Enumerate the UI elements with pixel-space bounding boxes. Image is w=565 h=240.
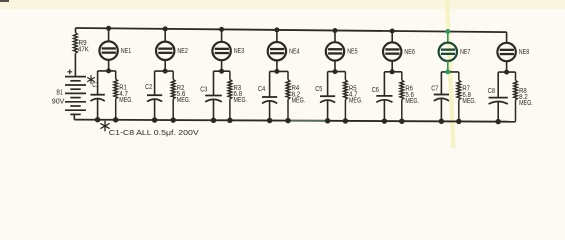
- wire NE3 to node: [221, 60, 223, 71]
- junction bottom bus C8: [495, 119, 501, 125]
- junction node branch 2: [163, 69, 168, 74]
- svg-text:C3: C3: [200, 87, 207, 94]
- junction bottom bus R7: [456, 119, 462, 125]
- junction bottom bus C7: [439, 119, 445, 125]
- capacitor C3: [205, 95, 222, 97]
- capacitor C5: [320, 95, 335, 97]
- junction bottom bus C6: [382, 118, 388, 124]
- junction top bus branch 3: [219, 27, 224, 32]
- junction top bus branch 7: [445, 29, 450, 34]
- wire node branch 1: [98, 70, 116, 72]
- svg-text:C1-C8 ALL 0.5μf. 200V: C1-C8 ALL 0.5μf. 200V: [109, 128, 199, 137]
- wire R3 to bottom bus: [229, 99, 231, 120]
- svg-text:NE8: NE8: [519, 47, 529, 56]
- wire bottom bus: [74, 120, 515, 122]
- svg-text:MEG.: MEG.: [462, 98, 476, 105]
- wire bus to NE6: [391, 31, 393, 43]
- wire node branch 6: [384, 71, 401, 73]
- svg-text:B1: B1: [56, 90, 63, 97]
- junction bottom bus R3: [227, 118, 233, 124]
- wire R6 to bottom bus: [401, 100, 403, 122]
- wire node to C4: [269, 71, 271, 97]
- resistor R8: [514, 80, 518, 100]
- svg-text:MEG.: MEG.: [119, 97, 133, 104]
- junction top bus branch 4: [274, 27, 279, 32]
- resistor R6: [400, 80, 404, 100]
- neon lamp NE7: [439, 43, 457, 61]
- svg-text:C5: C5: [315, 86, 322, 93]
- junction bottom bus R2: [170, 117, 176, 123]
- svg-text:C7: C7: [431, 86, 438, 93]
- wire C8 to bottom bus: [497, 102, 499, 122]
- wire node branch 7: [441, 71, 458, 73]
- junction bottom bus C3: [211, 118, 217, 124]
- neon lamp NE5: [326, 42, 344, 60]
- svg-text:MEG.: MEG.: [405, 98, 419, 105]
- wire node to C1: [97, 71, 99, 95]
- corner smudge: [0, 0, 9, 2]
- svg-text:MEG.: MEG.: [349, 98, 363, 105]
- yellow marker line: [447, 0, 454, 148]
- wire C1 to bottom bus: [97, 99, 99, 120]
- resistor R5: [344, 80, 348, 100]
- battery B1 plus sign: [67, 69, 72, 74]
- svg-text:C8: C8: [488, 88, 495, 95]
- resistor R3: [228, 80, 232, 100]
- capacitor C4: [262, 96, 277, 98]
- wire C6 to bottom bus: [383, 100, 385, 121]
- junction top bus branch 6: [390, 29, 395, 34]
- wire R5 to bottom bus: [344, 100, 346, 121]
- junction node branch 1: [106, 68, 111, 73]
- junction node branch 5: [333, 69, 338, 74]
- wire node branch 5: [328, 71, 346, 73]
- wire node branch 3: [214, 70, 230, 72]
- wire node to R4: [287, 71, 289, 79]
- wire node to C7: [440, 72, 442, 95]
- neon lamp NE6: [383, 42, 401, 60]
- wire R2 to bottom bus: [172, 99, 174, 120]
- wire node to C8: [497, 72, 499, 98]
- junction node branch 7: [445, 69, 450, 74]
- junction bottom bus C5: [325, 118, 331, 124]
- wire C2 to bottom bus: [154, 100, 156, 120]
- wire NE2 to node: [164, 60, 166, 71]
- capacitor C6: [376, 95, 392, 97]
- wire node to C3: [213, 71, 215, 95]
- svg-text:MEG.: MEG.: [234, 97, 248, 104]
- wire C7 to bottom bus: [440, 99, 442, 121]
- svg-text:MEG.: MEG.: [177, 97, 191, 104]
- wire node to R8: [515, 72, 517, 80]
- wire bus to NE1: [108, 28, 110, 41]
- capacitor C7: [434, 94, 449, 96]
- neon lamp NE4: [268, 42, 286, 60]
- junction bottom bus C1: [95, 117, 101, 123]
- resistor R2: [171, 79, 175, 99]
- wire battery to bottom bus: [73, 114, 75, 119]
- paper tint band: [0, 0, 565, 9]
- svg-text:C6: C6: [372, 87, 379, 94]
- resistor R1: [114, 79, 118, 99]
- capacitor C1: [90, 94, 104, 96]
- wire node branch 4: [270, 70, 288, 72]
- junction node branch 8: [504, 70, 509, 75]
- svg-text:C1: C1: [92, 82, 99, 89]
- wire R9 to battery: [74, 54, 76, 77]
- wire bus to NE8: [506, 32, 508, 43]
- junction bottom bus C4: [267, 118, 273, 124]
- svg-text:90V: 90V: [52, 99, 65, 106]
- svg-text:47K: 47K: [78, 47, 89, 54]
- svg-text:NE7: NE7: [460, 47, 470, 56]
- resistor R4: [286, 80, 290, 100]
- wire NE7 to node: [447, 61, 449, 72]
- resistor R7: [457, 80, 461, 100]
- svg-text:C2: C2: [145, 84, 152, 91]
- neon lamp NE2: [156, 42, 174, 60]
- wire node to C6: [383, 72, 385, 96]
- svg-text:C4: C4: [258, 86, 265, 93]
- marker smudge on bottom bus: [291, 120, 326, 122]
- junction bottom bus R4: [285, 118, 291, 124]
- wire node to R1: [115, 71, 117, 79]
- wire C5 to bottom bus: [327, 101, 329, 121]
- svg-text:MEG.: MEG.: [292, 97, 306, 104]
- neon lamp NE1: [99, 41, 117, 59]
- junction bottom bus R5: [343, 118, 349, 124]
- wire NE1 to node: [108, 60, 110, 71]
- label C1 asterisk: [90, 76, 92, 84]
- svg-text:NE6: NE6: [404, 47, 414, 56]
- neon lamp NE8: [497, 43, 515, 61]
- wire node to R7: [458, 72, 460, 80]
- wire bus to NE5: [334, 31, 336, 43]
- wire node to C2: [154, 71, 156, 95]
- wire NE5 to node: [334, 60, 336, 71]
- svg-text:NE4: NE4: [289, 46, 299, 55]
- wire R4 to bottom bus: [287, 99, 289, 120]
- wire R7 to bottom bus: [458, 100, 460, 122]
- wire bus to NE7: [447, 32, 449, 43]
- junction top bus branch 1: [106, 26, 111, 31]
- junction node branch 4: [274, 69, 279, 74]
- svg-text:NE3: NE3: [234, 46, 244, 55]
- note asterisk: [104, 121, 106, 130]
- wire node to R5: [344, 72, 346, 80]
- wire top-left corner to R9: [75, 28, 77, 33]
- wire node branch 2: [155, 70, 174, 72]
- wire R8 to bottom bus: [515, 100, 517, 122]
- junction top bus branch 5: [333, 28, 338, 33]
- wire node branch 8: [498, 71, 515, 73]
- wire top bus: [76, 28, 507, 32]
- wire node to R2: [172, 71, 174, 79]
- wire C4 to bottom bus: [269, 101, 271, 120]
- wire node to C5: [327, 72, 329, 97]
- resistor R9: [73, 33, 77, 54]
- junction bottom bus C2: [152, 117, 158, 123]
- wire NE4 to node: [276, 60, 278, 71]
- svg-text:NE5: NE5: [347, 47, 357, 56]
- wire bus to NE2: [164, 29, 166, 42]
- junction node branch 3: [219, 69, 224, 74]
- svg-text:MEG.: MEG.: [519, 100, 533, 107]
- wire NE6 to node: [391, 61, 393, 72]
- wire bus to NE4: [276, 30, 278, 42]
- junction bottom bus R1: [113, 117, 119, 123]
- wire NE8 to node: [506, 61, 508, 72]
- junction node branch 6: [390, 69, 395, 74]
- junction bottom bus R6: [399, 118, 405, 124]
- capacitor C8: [489, 97, 508, 99]
- capacitor C2: [147, 94, 162, 96]
- neon lamp NE3: [212, 42, 230, 60]
- wire R1 to bottom bus: [115, 99, 117, 120]
- junction top bus branch 2: [163, 26, 168, 31]
- battery B1: [65, 76, 86, 78]
- svg-text:NE1: NE1: [121, 46, 131, 55]
- wire node to R6: [401, 72, 403, 80]
- wire bus to NE3: [221, 29, 223, 42]
- wire C3 to bottom bus: [213, 100, 215, 120]
- svg-text:NE2: NE2: [177, 46, 187, 55]
- wire node to R3: [229, 71, 231, 79]
